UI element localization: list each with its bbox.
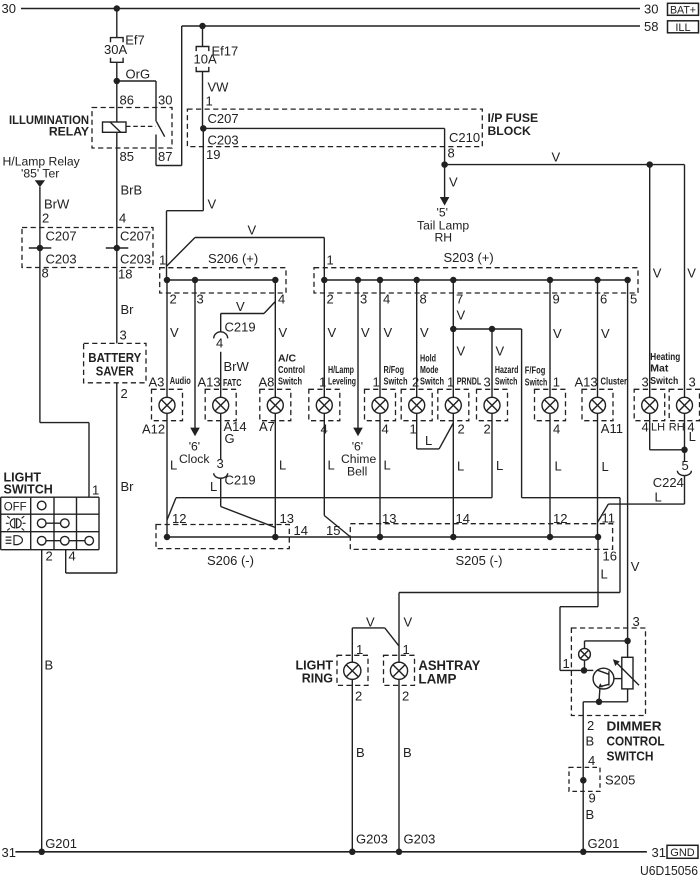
- svg-text:A3: A3: [149, 374, 165, 389]
- wire transistor collector: [614, 678, 622, 680]
- lamp heating mat LH: [642, 397, 658, 413]
- svg-text:DIMMER: DIMMER: [607, 718, 662, 733]
- label C219 top: [225, 319, 256, 334]
- wire C210 rail to heating: [445, 164, 685, 166]
- wire jog to S206 pin1: [167, 211, 204, 280]
- label V dimmer: [631, 559, 640, 574]
- light switch park icon: [6, 516, 26, 530]
- label Audio: [170, 375, 191, 387]
- svg-text:B: B: [403, 745, 412, 760]
- wire branch to light ring: [352, 628, 399, 663]
- lamp box rfog: [365, 389, 396, 420]
- svg-text:5: 5: [630, 292, 637, 307]
- label G: [225, 431, 235, 446]
- node G203 ashtray: [396, 849, 403, 856]
- label Heating Mat Switch: [650, 351, 680, 387]
- svg-text:VW: VW: [208, 80, 230, 95]
- label 16 s205: [603, 549, 617, 564]
- lamp box A13: [205, 389, 236, 420]
- svg-text:Br: Br: [121, 302, 135, 317]
- label C207 mid: [120, 229, 151, 244]
- light switch row3 link: [42, 540, 89, 542]
- label F/Fog Switch: [525, 364, 548, 388]
- node hazard feed: [489, 326, 496, 333]
- label 7 s203: [456, 292, 463, 307]
- label L cluster: [602, 459, 609, 474]
- label 10A: [194, 52, 217, 67]
- label 2 dimmer: [587, 718, 594, 733]
- label G203 ashtray: [404, 831, 436, 846]
- label 12 s205: [553, 511, 567, 526]
- label Clock: [179, 452, 210, 466]
- label L audio: [170, 458, 177, 473]
- label 13 s206m: [280, 511, 294, 526]
- hazard feed rail: [453, 329, 521, 498]
- svg-text:Control: Control: [278, 364, 305, 376]
- svg-text:4: 4: [553, 422, 560, 437]
- label '6' chime: [352, 440, 363, 454]
- svg-text:B: B: [586, 734, 595, 749]
- svg-text:1: 1: [319, 374, 326, 389]
- label V leveling: [328, 325, 337, 340]
- junction on rail 30: [114, 5, 121, 12]
- node S203+ pin4: [377, 277, 384, 284]
- svg-text:Switch: Switch: [384, 375, 408, 387]
- label '5': [437, 206, 448, 220]
- connector box C207/C203 left: [22, 228, 153, 268]
- label Br lower: [121, 479, 135, 494]
- node heating LH tap: [646, 161, 653, 168]
- svg-text:3: 3: [689, 374, 696, 389]
- label LIGHT SWITCH title: [4, 470, 53, 496]
- wire C203 pin18 down: [116, 248, 118, 343]
- node G201 dimmer: [580, 849, 587, 856]
- svg-text:G203: G203: [404, 831, 436, 846]
- label 1 hold: [410, 422, 417, 437]
- svg-text:'85' Ter: '85' Ter: [21, 167, 59, 181]
- label A14: [224, 419, 247, 434]
- wire S206 pin3 to clock: [194, 280, 196, 428]
- svg-text:L: L: [210, 479, 217, 494]
- wire heating RH join: [684, 413, 686, 461]
- label 86: [120, 93, 134, 108]
- svg-text:A13: A13: [575, 374, 598, 389]
- svg-text:L: L: [555, 459, 562, 474]
- svg-text:A7: A7: [259, 419, 275, 434]
- V rail diagonal: [167, 238, 196, 267]
- svg-text:L: L: [602, 459, 609, 474]
- wire H/Lamp relay to C207 pin2: [39, 187, 41, 248]
- node C207 pin19 junction: [200, 125, 207, 132]
- node S203+ pin6: [594, 277, 601, 284]
- svg-text:30: 30: [2, 1, 16, 16]
- node S206- pin13: [272, 534, 279, 541]
- svg-text:SWITCH: SWITCH: [607, 748, 654, 763]
- svg-text:Switch: Switch: [495, 375, 518, 387]
- label 4 lightswitch: [69, 549, 76, 564]
- svg-text:L: L: [425, 433, 432, 448]
- label A8: [259, 374, 275, 389]
- svg-text:V: V: [653, 266, 662, 281]
- svg-text:6: 6: [600, 292, 607, 307]
- svg-text:4: 4: [216, 335, 223, 350]
- terminal triangle from H/Lamp relay: [35, 180, 45, 187]
- label 5 s203: [630, 292, 637, 307]
- svg-text:L: L: [328, 458, 335, 473]
- wire dimmer emitter rail: [583, 701, 627, 703]
- svg-text:2: 2: [327, 292, 334, 307]
- label pin 2 hold: [412, 374, 419, 389]
- label pin 3 c219b: [217, 456, 224, 471]
- svg-text:Br: Br: [121, 479, 135, 494]
- svg-text:85: 85: [120, 149, 134, 164]
- svg-text:2: 2: [587, 718, 594, 733]
- label C207 left: [46, 229, 77, 244]
- wire relay 85 down: [116, 132, 118, 248]
- label 2 hazard: [484, 422, 491, 437]
- label 30 left: [2, 1, 16, 16]
- label pin 1 rfog: [373, 374, 380, 389]
- lamp A13 FATC: [213, 397, 229, 413]
- svg-text:31: 31: [2, 845, 16, 860]
- wire S203 pin7 to junction: [452, 280, 454, 329]
- svg-text:C207: C207: [46, 229, 77, 244]
- svg-text:V: V: [687, 266, 696, 281]
- label 2: [170, 292, 177, 307]
- relay coil-switch dashed link: [126, 125, 156, 127]
- label ASHTRAY LAMP: [418, 658, 480, 687]
- lamp box cluster: [582, 389, 613, 420]
- label 14 s205: [456, 511, 470, 526]
- svg-text:Switch: Switch: [525, 376, 548, 388]
- resistor dimmer: [622, 657, 633, 689]
- wire S203 pin4 to rfog lamp: [379, 280, 381, 397]
- svg-text:2: 2: [170, 292, 177, 307]
- wire light ring to G203: [351, 679, 353, 852]
- node dimmer pin3: [624, 638, 631, 645]
- label 6 s203: [600, 292, 607, 307]
- label ILLUMINATION RELAY: [9, 113, 89, 139]
- label V tail: [449, 175, 458, 190]
- label Bell: [347, 464, 367, 478]
- label S205 (-): [456, 553, 503, 568]
- svg-text:86: 86: [120, 93, 134, 108]
- splice box S206 (+): [160, 268, 286, 293]
- label S203 (+): [444, 250, 494, 265]
- label 2 s203: [327, 292, 334, 307]
- wire BrW to light switch pin1: [40, 248, 89, 497]
- label B lightring: [356, 745, 365, 760]
- svg-text:12: 12: [553, 511, 567, 526]
- label V chime: [361, 325, 370, 340]
- light switch contact r3c2: [61, 536, 70, 545]
- wire heating LH join: [650, 413, 685, 450]
- svg-text:Switch: Switch: [278, 375, 302, 387]
- lamp box light ring: [337, 655, 368, 685]
- svg-text:L: L: [384, 458, 391, 473]
- svg-text:BAT+: BAT+: [670, 4, 696, 16]
- label pin 5 c224: [682, 458, 689, 473]
- lamp box prndl: [438, 389, 469, 420]
- label S206 (-): [207, 553, 254, 568]
- connector C224 pin5 arc: [677, 471, 691, 476]
- svg-text:C207: C207: [208, 111, 239, 126]
- label pin 2: [42, 210, 49, 225]
- svg-text:ILL: ILL: [675, 22, 690, 34]
- svg-text:Mode: Mode: [420, 364, 439, 376]
- lamp box A8: [260, 389, 291, 420]
- svg-text:Hazard: Hazard: [495, 364, 519, 376]
- label 31 right: [652, 845, 666, 860]
- svg-text:3: 3: [642, 374, 649, 389]
- svg-text:RH: RH: [435, 230, 453, 244]
- fuse Ef17: [196, 47, 209, 72]
- label 85: [120, 149, 134, 164]
- svg-text:Leveling: Leveling: [328, 375, 356, 387]
- svg-text:LH: LH: [651, 422, 665, 434]
- label 2 prndl: [458, 422, 465, 437]
- node S203+ pin9: [547, 277, 554, 284]
- terminal box GND: [667, 845, 698, 859]
- node S203+ pin5: [624, 277, 631, 284]
- svg-text:G201: G201: [45, 836, 77, 851]
- splice box S206 (-): [156, 525, 289, 549]
- wire S203 pin2 to leveling lamp: [323, 280, 325, 397]
- transistor Q1: [584, 668, 614, 702]
- bus S206+: [167, 279, 275, 281]
- label V c219: [236, 299, 245, 314]
- svg-text:3: 3: [360, 292, 367, 307]
- lamp box leveling: [309, 389, 340, 420]
- svg-text:2: 2: [121, 386, 128, 401]
- svg-text:13: 13: [382, 511, 396, 526]
- wire hold lamp join prndl: [417, 413, 454, 449]
- svg-text:1: 1: [447, 374, 454, 389]
- svg-text:3: 3: [633, 614, 640, 629]
- lamp cluster: [590, 397, 606, 413]
- label 30A: [104, 42, 127, 57]
- label V rail: [248, 222, 257, 237]
- svg-text:2: 2: [458, 422, 465, 437]
- svg-text:1: 1: [159, 253, 166, 268]
- wire dimmer lamp feed: [585, 641, 628, 649]
- wire heating RH: [684, 165, 686, 398]
- label V prndl top: [457, 308, 466, 323]
- label pin 3 hazard: [484, 374, 491, 389]
- splice box S203 (+): [314, 268, 638, 293]
- svg-text:L: L: [601, 567, 608, 582]
- svg-text:V: V: [170, 325, 179, 340]
- label V c210 rail: [552, 150, 561, 165]
- wire light switch pin2 to G201: [41, 550, 43, 852]
- lamp box A3: [152, 389, 183, 420]
- svg-text:G201: G201: [588, 836, 620, 851]
- svg-text:C203: C203: [120, 252, 151, 267]
- svg-text:3: 3: [217, 456, 224, 471]
- label L c224: [655, 490, 662, 505]
- svg-text:L: L: [279, 458, 286, 473]
- svg-text:G: G: [225, 431, 235, 446]
- svg-text:CONTROL: CONTROL: [607, 733, 665, 748]
- label '6' clock: [189, 440, 200, 454]
- wire junction to prndl lamp: [452, 329, 454, 397]
- label L prndl: [457, 459, 464, 474]
- svg-text:BLOCK: BLOCK: [488, 124, 532, 138]
- label 1 ashtray: [403, 642, 410, 657]
- svg-text:1: 1: [410, 422, 417, 437]
- connector junction pin4/18: [106, 245, 129, 252]
- svg-text:V: V: [457, 308, 466, 323]
- label U6D15056: [640, 863, 698, 878]
- node G201 left: [38, 849, 45, 856]
- svg-text:7: 7: [456, 292, 463, 307]
- label pin 8: [42, 265, 49, 280]
- svg-text:9: 9: [589, 790, 596, 805]
- wire relay coil 86: [116, 81, 118, 122]
- label C207 right: [208, 111, 239, 126]
- svg-text:2: 2: [46, 549, 53, 564]
- svg-text:F/Fog: F/Fog: [525, 364, 546, 376]
- lamp dimmer: [579, 648, 591, 660]
- svg-text:V: V: [457, 344, 466, 359]
- svg-text:V: V: [366, 615, 375, 630]
- svg-text:RING: RING: [302, 671, 333, 685]
- svg-text:Heating: Heating: [650, 351, 680, 363]
- label C203 right: [208, 132, 239, 147]
- label A3: [149, 374, 165, 389]
- label pin 4: [119, 210, 126, 225]
- svg-text:L: L: [689, 429, 696, 444]
- label 4 s205b: [588, 753, 595, 768]
- node S206+ pin4: [272, 277, 279, 284]
- svg-text:BATTERY: BATTERY: [88, 351, 142, 365]
- svg-text:Ef7: Ef7: [125, 32, 145, 47]
- wire OrG to relay 30: [117, 81, 156, 121]
- label 3 s203: [360, 292, 367, 307]
- label PRNDL: [457, 375, 482, 387]
- svg-text:V: V: [279, 325, 288, 340]
- arrow to tail lamp: [440, 197, 450, 206]
- label 3 batsaver: [120, 328, 127, 343]
- svg-text:58: 58: [644, 19, 658, 34]
- label L rfog: [384, 458, 391, 473]
- label Hazard Switch: [495, 364, 519, 388]
- svg-text:Cluster: Cluster: [601, 375, 628, 387]
- label B ashtray: [403, 745, 412, 760]
- node S203+ pin2: [321, 277, 328, 284]
- svg-text:S205: S205: [605, 772, 635, 787]
- label L c219: [210, 479, 217, 494]
- label pin 1 prndl: [447, 374, 454, 389]
- node S205- pin14: [450, 534, 457, 541]
- wire S206 pin2 to audio lamp: [166, 280, 168, 397]
- label OrG: [126, 67, 151, 82]
- node OrG junction: [114, 78, 121, 85]
- svg-text:2: 2: [484, 422, 491, 437]
- wire hazard junction down: [522, 498, 620, 593]
- wire relay 87 to rail58: [156, 26, 182, 166]
- svg-text:2: 2: [42, 210, 49, 225]
- svg-text:19: 19: [206, 147, 220, 162]
- svg-text:4: 4: [383, 292, 390, 307]
- label LH: [651, 422, 665, 434]
- svg-text:13: 13: [280, 511, 294, 526]
- svg-text:C203: C203: [46, 252, 77, 267]
- label 14 s206m: [294, 523, 308, 538]
- svg-text:16: 16: [603, 549, 617, 564]
- svg-text:3: 3: [197, 292, 204, 307]
- label L heat: [689, 429, 696, 444]
- label 9 s203: [553, 292, 560, 307]
- label V ashtray: [404, 615, 413, 630]
- svg-text:S206 (-): S206 (-): [207, 553, 254, 568]
- svg-text:A11: A11: [601, 421, 623, 436]
- svg-text:14: 14: [456, 511, 470, 526]
- label 2 lightswitch: [46, 549, 53, 564]
- label V prndl: [457, 344, 466, 359]
- wire rail30 to fuse Ef7: [116, 9, 118, 38]
- svg-text:OrG: OrG: [126, 67, 151, 82]
- lamp heating mat RH: [677, 397, 693, 413]
- svg-text:OFF: OFF: [4, 501, 27, 513]
- lamp box heating RH: [669, 389, 699, 420]
- wire rail58 to fuse Ef17: [202, 26, 204, 46]
- svg-text:8: 8: [420, 292, 427, 307]
- wire leveling lamp to S205- pin15: [324, 413, 350, 537]
- wire C219 to FATC lamp: [220, 352, 222, 398]
- label C210: [449, 130, 480, 145]
- label RH: [435, 230, 453, 244]
- svg-text:31: 31: [652, 845, 666, 860]
- wire resistor bottom: [627, 689, 629, 702]
- label V hold: [420, 325, 429, 340]
- label 8 s203: [420, 292, 427, 307]
- label 4 s203: [383, 292, 390, 307]
- label Chime: [341, 452, 376, 466]
- light switch row2 link: [42, 522, 65, 524]
- svg-text:1: 1: [206, 93, 213, 108]
- node S205- pin13: [377, 534, 384, 541]
- label 3 heat rh: [689, 374, 696, 389]
- connector box C207/C203 fuse block: [187, 109, 482, 147]
- svg-text:V: V: [496, 344, 505, 359]
- svg-text:18: 18: [118, 266, 132, 281]
- svg-text:15: 15: [326, 523, 340, 538]
- label pin 1: [206, 93, 213, 108]
- bus S203+: [324, 279, 627, 281]
- svg-text:Bell: Bell: [347, 464, 367, 478]
- svg-text:1: 1: [92, 483, 99, 498]
- svg-text:Clock: Clock: [179, 452, 210, 466]
- svg-text:8: 8: [448, 146, 455, 161]
- svg-text:V: V: [384, 325, 393, 340]
- label A13 fatc: [198, 374, 221, 389]
- label A13 cluster: [575, 374, 598, 389]
- label B dimmer top: [586, 734, 595, 749]
- label V rfog: [384, 325, 393, 340]
- label L ffog: [555, 459, 562, 474]
- svg-text:H/Lamp: H/Lamp: [328, 364, 354, 376]
- svg-text:V: V: [404, 615, 413, 630]
- wire S205 pin16 to dimmer pin1: [560, 537, 598, 670]
- label L hazard: [496, 458, 503, 473]
- svg-text:1: 1: [373, 374, 380, 389]
- svg-text:V: V: [552, 150, 561, 165]
- label B dimmer bottom: [586, 807, 595, 822]
- svg-text:Audio: Audio: [170, 375, 191, 387]
- svg-text:R/Fog: R/Fog: [384, 364, 405, 376]
- arrow to clock: [190, 428, 200, 437]
